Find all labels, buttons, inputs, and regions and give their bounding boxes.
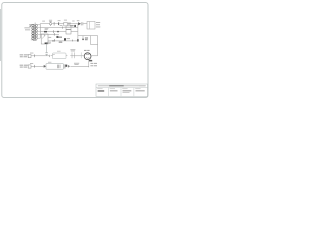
terminal vertical drop — [88, 60, 90, 68]
rail 2 dark element — [74, 25, 76, 27]
diode D1 cathode bar — [80, 22, 82, 25]
fuse F1 ticks — [50, 22, 52, 26]
motor brush tick — [90, 59, 91, 60]
selector inner tick — [43, 35, 45, 37]
secondary tap bus — [39, 24, 41, 39]
tap stub 3 — [37, 31, 41, 33]
stub dark end — [82, 39, 84, 41]
diode D2 body — [68, 65, 70, 68]
label above C1 — [58, 19, 61, 22]
rail 3 contact tick — [53, 30, 55, 33]
cell 1 label — [97, 87, 102, 90]
title text light run — [98, 84, 146, 87]
coupling capacitor plates vertical drop — [45, 43, 48, 55]
rail 2 relay box — [66, 26, 71, 29]
wire top rail segment D — [68, 23, 78, 25]
wire top rail segment A — [40, 23, 49, 25]
capacitor C3 dark body — [44, 31, 47, 33]
label TO LINE text line 2 — [25, 28, 30, 31]
capacitor bank plate 2 — [74, 52, 76, 58]
capacitor C2 plate tick — [82, 22, 84, 25]
sheet border frame (drawing sheet outline) — [2, 3, 148, 98]
stub vertical — [82, 36, 84, 39]
label mid rail left — [48, 36, 51, 39]
switch S1 contact tick — [53, 22, 55, 26]
label above fuse line 1 — [49, 19, 52, 22]
capacitor bank stubs — [66, 55, 72, 57]
regulator U1 divider — [89, 22, 91, 30]
label right of R1 line 2 — [68, 23, 71, 26]
title text tail — [139, 84, 145, 87]
control row B text box — [28, 65, 31, 68]
rail 4 contact tick — [53, 33, 55, 36]
cell 2 label — [110, 87, 115, 90]
row A caption line 1 — [20, 53, 24, 56]
tap stub 5 — [37, 37, 41, 39]
junction dot rail 3 — [57, 31, 59, 33]
label right of U1 line 3 — [96, 26, 100, 29]
title block divider horizontal — [96, 87, 148, 89]
label rail2 right — [70, 24, 73, 27]
transformer bottom bar — [33, 40, 37, 42]
label above fuse line 2 — [49, 20, 52, 23]
rail 2 contact tick — [61, 26, 63, 28]
wire rail 3 segment B — [71, 31, 78, 33]
terminal note line 2 — [90, 64, 93, 67]
wire rail 2 — [40, 27, 78, 29]
title block divider col 2 — [120, 88, 122, 97]
scan edge streak left — [0, 9, 2, 61]
stub side marks — [85, 37, 88, 40]
capacitor bank plate 1 — [71, 52, 73, 58]
wire row B segment A — [31, 65, 46, 67]
cell 2 value — [110, 90, 118, 91]
label under tap stubs — [45, 27, 49, 30]
label TO LINE text line 1 — [24, 26, 30, 29]
label right of U1 line 2 — [96, 23, 100, 26]
capacitor C4 dark body — [64, 38, 66, 40]
label under mid rail — [59, 41, 62, 44]
feedback loop left vertical — [90, 36, 92, 45]
title block divider col 3 — [133, 88, 135, 97]
label mid rail right — [67, 37, 70, 40]
transformer primary lead bottom — [31, 39, 34, 41]
fuse F1 circle — [49, 23, 51, 25]
label above dark contact — [59, 36, 62, 39]
capacitor C1 dark plate — [57, 22, 60, 25]
label above diode — [77, 19, 80, 22]
label above D1 — [72, 20, 74, 23]
transformer T1 core — [34, 24, 36, 40]
label above row B wire line 2 — [74, 63, 78, 66]
label above wire seg A — [42, 20, 45, 23]
wire to motor — [72, 55, 84, 57]
dark contact block — [56, 36, 58, 38]
label above motor — [84, 49, 87, 52]
label right of R1 line 1 — [68, 22, 71, 25]
cell 3 value line 2 — [123, 91, 130, 94]
primary terminal marks — [29, 24, 31, 26]
wire row A — [31, 55, 49, 57]
regulator U1 box — [87, 22, 95, 30]
mid rail tick right — [71, 40, 73, 42]
label above row A wire — [30, 52, 33, 55]
row B tick — [33, 65, 35, 68]
wire rail 3 segment A — [40, 31, 66, 33]
tap stub 4 — [37, 33, 41, 35]
label above row B wire line 1 — [74, 62, 79, 65]
row B caption line 2 — [20, 66, 23, 69]
row B caption line 1 — [20, 64, 24, 67]
transformer T1 left primary winding — [32, 24, 34, 39]
wire row B segment B — [70, 65, 88, 67]
selector diagonal — [42, 35, 45, 38]
title block outer frame — [96, 84, 148, 96]
mid rail contact tick — [54, 39, 56, 41]
tap stub 1 — [37, 23, 41, 25]
label right of U1 line 1 — [96, 21, 100, 24]
filter choke capsule — [46, 64, 63, 70]
transformer T1 right secondary winding — [36, 25, 38, 40]
label above row B wire left — [30, 62, 33, 65]
cell 3 value — [123, 90, 132, 91]
tap stub 2 — [37, 27, 41, 29]
wire motor to bus — [91, 55, 97, 57]
starting capacitor lead vertical — [80, 52, 82, 58]
row A caption line 2 — [20, 55, 23, 58]
control row A text box — [28, 55, 31, 58]
label under selector line 2 — [47, 42, 50, 45]
label under C1 — [60, 24, 63, 27]
resistor R1 box — [64, 22, 67, 26]
cell 4 label — [135, 87, 140, 90]
vibrator dark contact — [65, 65, 67, 67]
ballast resistor box — [52, 53, 66, 59]
motor M1 circle — [84, 53, 91, 60]
dark label tag — [89, 60, 92, 61]
wire top rail segment C — [59, 23, 63, 25]
title block divider col 1 — [107, 88, 109, 97]
transformer primary lead top — [30, 24, 34, 25]
right feed vertical — [77, 24, 79, 41]
title text bold words — [109, 85, 124, 86]
diode D1 body — [78, 22, 81, 25]
wire rail 4 — [40, 33, 59, 35]
cell 3 label — [122, 87, 127, 90]
label above row A rect — [57, 50, 61, 53]
vibrator contact plates — [64, 64, 65, 68]
selector box — [41, 34, 48, 44]
label under tap stubs 2 — [45, 28, 48, 31]
output bus vertical — [97, 36, 99, 56]
switch S2 blade — [51, 54, 55, 56]
feedback loop bottom — [91, 44, 98, 46]
row B diode D3 — [44, 65, 46, 68]
label above cap bank 2 — [71, 50, 75, 53]
relay K1 box — [66, 30, 71, 34]
transformer top tick — [34, 23, 36, 25]
mid rail junction dark mark — [77, 39, 79, 41]
label above R1 — [64, 19, 67, 22]
motor M1 rotor marks — [86, 54, 89, 58]
selector dark contact — [45, 43, 48, 45]
label under selector line 1 — [47, 41, 51, 44]
label above row B box — [48, 61, 51, 64]
wire top rail segment E — [83, 23, 87, 25]
mid rail wire — [48, 40, 78, 42]
cell 4 value — [136, 90, 145, 91]
wire top rail segment B — [52, 23, 58, 25]
terminal note line 1 — [90, 62, 93, 65]
switch S2 pivot tick — [48, 55, 50, 57]
cell 1 value — [98, 90, 105, 92]
choke internal ticks — [57, 65, 60, 69]
row A tick — [33, 54, 35, 57]
mid rail junction dot left — [52, 40, 53, 41]
label above cap bank — [70, 48, 75, 51]
bottom link horizontal — [78, 35, 98, 37]
